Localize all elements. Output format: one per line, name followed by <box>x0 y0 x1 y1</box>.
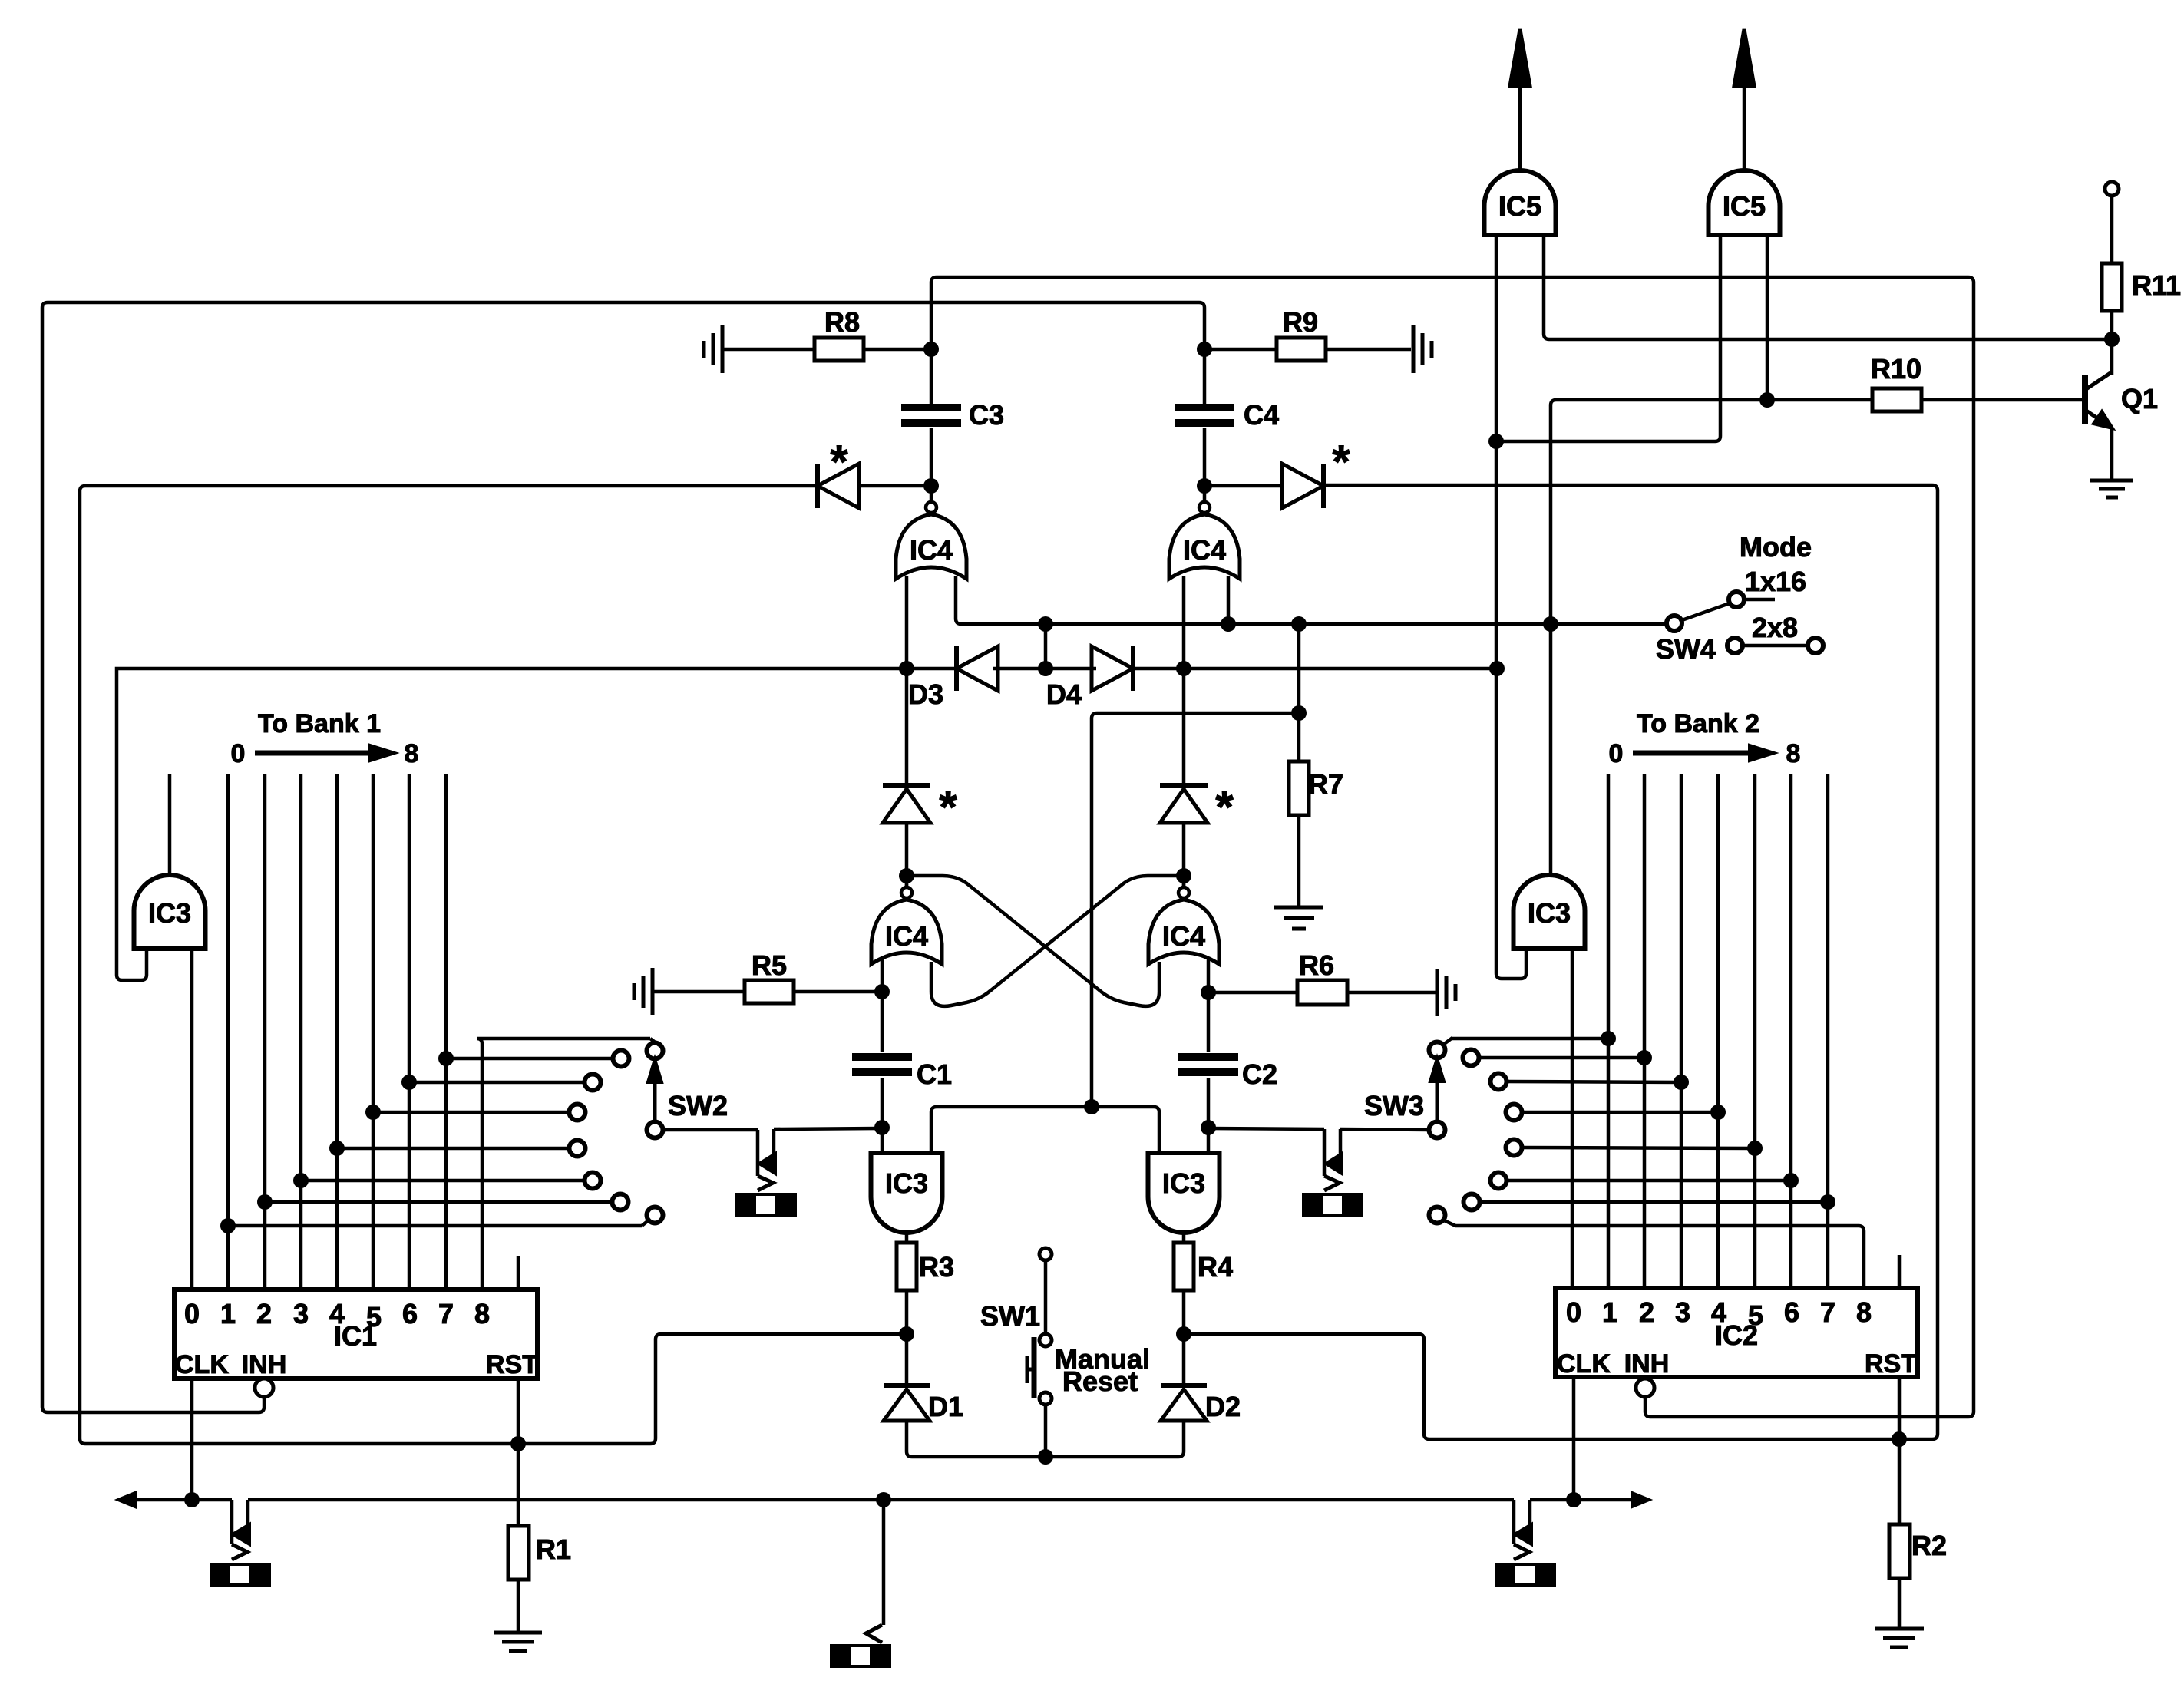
svg-text:RST: RST <box>486 1350 538 1379</box>
svg-text:D4: D4 <box>1046 679 1082 710</box>
svg-text:2x8: 2x8 <box>1752 612 1798 643</box>
svg-text:*: * <box>830 436 848 487</box>
svg-text:8: 8 <box>1856 1296 1872 1328</box>
svg-text:7: 7 <box>438 1298 454 1329</box>
svg-text:R5: R5 <box>752 949 787 981</box>
svg-text:C2: C2 <box>1242 1058 1277 1090</box>
svg-text:D3: D3 <box>908 679 943 710</box>
svg-text:SW4: SW4 <box>1656 633 1716 665</box>
svg-text:R11: R11 <box>2132 269 2181 301</box>
svg-text:0: 0 <box>1609 739 1624 768</box>
svg-text:IC4: IC4 <box>885 920 928 952</box>
svg-text:7: 7 <box>1820 1296 1835 1328</box>
svg-text:R1: R1 <box>536 1534 571 1565</box>
svg-text:*: * <box>1332 436 1350 487</box>
svg-text:1: 1 <box>1602 1296 1617 1328</box>
svg-text:Q1: Q1 <box>2121 383 2158 414</box>
svg-text:1: 1 <box>220 1298 236 1329</box>
svg-text:R3: R3 <box>919 1251 954 1283</box>
svg-text:2: 2 <box>1639 1296 1654 1328</box>
svg-text:R4: R4 <box>1198 1251 1233 1283</box>
svg-text:INH: INH <box>1624 1349 1670 1379</box>
svg-text:IC4: IC4 <box>1183 534 1226 566</box>
svg-text:IC5: IC5 <box>1723 190 1766 222</box>
svg-text:R10: R10 <box>1871 353 1921 385</box>
svg-text:C3: C3 <box>969 399 1004 431</box>
svg-text:0: 0 <box>184 1298 200 1329</box>
svg-text:Reset: Reset <box>1062 1365 1138 1397</box>
svg-text:IC3: IC3 <box>148 897 191 929</box>
svg-text:RST: RST <box>1865 1349 1917 1379</box>
svg-text:6: 6 <box>1784 1296 1799 1328</box>
svg-text:0: 0 <box>1566 1296 1581 1328</box>
svg-text:SW1: SW1 <box>980 1300 1040 1332</box>
svg-text:IC3: IC3 <box>1528 897 1571 929</box>
svg-text:8: 8 <box>474 1298 490 1329</box>
svg-text:IC3: IC3 <box>1162 1167 1205 1199</box>
svg-text:SW2: SW2 <box>668 1090 728 1121</box>
svg-text:IC5: IC5 <box>1498 190 1541 222</box>
svg-text:C1: C1 <box>917 1058 952 1090</box>
svg-text:*: * <box>939 781 957 833</box>
svg-text:To Bank 1: To Bank 1 <box>258 709 381 738</box>
svg-text:CLK: CLK <box>1557 1349 1611 1379</box>
svg-text:IC4: IC4 <box>1162 920 1205 952</box>
svg-text:6: 6 <box>402 1298 418 1329</box>
svg-text:IC2: IC2 <box>1715 1319 1758 1351</box>
svg-text:D2: D2 <box>1205 1391 1241 1422</box>
svg-text:3: 3 <box>1675 1296 1690 1328</box>
svg-text:8: 8 <box>405 739 419 768</box>
svg-text:R6: R6 <box>1299 949 1334 981</box>
svg-text:R9: R9 <box>1283 306 1318 338</box>
svg-text:2: 2 <box>256 1298 272 1329</box>
svg-text:8: 8 <box>1786 739 1801 768</box>
svg-text:R2: R2 <box>1911 1530 1947 1561</box>
svg-text:C4: C4 <box>1244 399 1279 431</box>
svg-text:To Bank 2: To Bank 2 <box>1637 709 1759 738</box>
svg-text:SW3: SW3 <box>1364 1090 1424 1121</box>
svg-text:0: 0 <box>231 739 246 768</box>
svg-text:3: 3 <box>293 1298 309 1329</box>
svg-text:CLK: CLK <box>175 1350 229 1379</box>
svg-text:IC3: IC3 <box>885 1167 928 1199</box>
svg-text:IC1: IC1 <box>334 1320 377 1352</box>
svg-text:1x16: 1x16 <box>1745 566 1806 597</box>
svg-text:R7: R7 <box>1308 768 1343 800</box>
svg-text:R8: R8 <box>824 306 860 338</box>
svg-text:*: * <box>1215 781 1234 833</box>
svg-text:IC4: IC4 <box>910 534 953 566</box>
svg-text:INH: INH <box>242 1350 287 1379</box>
svg-text:Mode: Mode <box>1740 531 1812 563</box>
svg-text:D1: D1 <box>928 1391 963 1422</box>
